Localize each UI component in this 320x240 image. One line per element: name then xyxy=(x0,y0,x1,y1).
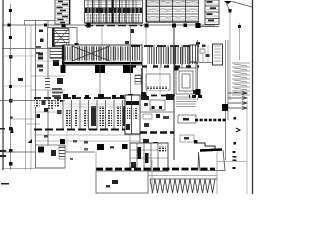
top-left schedule strip (stacked cells) xyxy=(55,0,70,24)
grid line vertical x25 xyxy=(25,25,27,170)
small label A xyxy=(131,29,135,33)
left wing rooms x34-62 y99-115 xyxy=(34,100,62,114)
left dimension tick marks xyxy=(9,9,13,166)
faint dimension lines left xyxy=(2,55,35,57)
horizontal grid line y48.5 left xyxy=(2,48,64,50)
dots right column xyxy=(234,117,237,120)
right wing rooms y45-65 xyxy=(190,44,223,65)
entrance hall rectangle below xyxy=(96,171,148,193)
fixtures lines below band F xyxy=(147,68,161,95)
dark square left of C xyxy=(196,23,201,28)
elevator shaft verticals center xyxy=(100,25,131,97)
plaza line y175 xyxy=(148,175,217,177)
stair hatch rows x176-196 y98-106 xyxy=(176,97,196,107)
right double wall x225-228 xyxy=(225,40,227,160)
zigzag ramp hatch bottom xyxy=(150,179,217,193)
left margin small text marks xyxy=(0,78,23,185)
stair block upper-left xyxy=(39,28,79,49)
dark blob near x197 xyxy=(196,89,201,95)
toilet rooms x125-140 y95-134 xyxy=(125,95,140,134)
dimension marks below core xyxy=(34,135,140,141)
horizontal lines left wing xyxy=(35,60,65,62)
dimension line y100 left xyxy=(0,100,65,102)
toothed dark band right y118-122 xyxy=(195,119,226,121)
wall x197 xyxy=(197,40,199,100)
block A footer dashes xyxy=(85,25,142,27)
lower-left rooms x35-65 y145-168 xyxy=(36,145,66,168)
small marks right wing top xyxy=(196,42,200,45)
bottom-left horizontal line y168 xyxy=(2,168,35,170)
washroom block center y72-95 xyxy=(131,68,175,99)
top dimension baseline y25 xyxy=(2,24,215,26)
louver schedule rows right side xyxy=(232,63,250,95)
small label B xyxy=(125,41,129,44)
line y161 right xyxy=(217,161,247,163)
right inner vertical bottom xyxy=(246,100,248,194)
top block A: hatched grid x84-142 xyxy=(85,0,143,23)
dark blob on right wall xyxy=(222,104,228,111)
pool box bottom-right xyxy=(198,150,225,171)
small box below xyxy=(180,135,194,142)
left annotation lines y119 y124 xyxy=(11,118,35,120)
right mid wall x174 xyxy=(173,26,175,160)
core rooms band x34-133 y97-131 xyxy=(34,98,133,130)
dark blobs below band E xyxy=(61,65,66,73)
bottom vertical lines from building xyxy=(96,134,130,171)
meeting room box right-center xyxy=(178,115,196,123)
mid horizontal line y152 xyxy=(2,151,95,153)
band E: dense hall x63-140 y45-65 xyxy=(62,45,142,65)
fan louver arrows xyxy=(228,92,247,110)
left dimension line xyxy=(10,4,12,170)
small annotation specks left-center xyxy=(73,140,77,143)
vertical line x152 bottom xyxy=(151,160,153,194)
block C bottom line xyxy=(195,26,219,28)
right-bottom small marks xyxy=(233,151,237,169)
building wall x48 xyxy=(47,20,49,168)
core top wall blocks y94-99 xyxy=(63,94,133,99)
top block B: hatched grid x146-199 xyxy=(146,0,200,22)
steps to pool right-bottom xyxy=(195,143,222,149)
band F: dense hall x131-199 y45-68 xyxy=(131,45,199,68)
stair nested rects right-center xyxy=(176,68,196,94)
upper-left room box xyxy=(25,21,61,26)
vertical corridor lines below block A xyxy=(101,26,103,45)
building west wall x35 xyxy=(35,20,37,168)
grid line vertical x31 xyxy=(30,25,32,170)
vertical lines below block B xyxy=(146,26,174,45)
left border frame line xyxy=(2,0,4,170)
leader vertical line x230 xyxy=(229,12,231,100)
leader vertical line x239 xyxy=(239,23,241,60)
north arrow leader top-right xyxy=(224,1,252,13)
lower cluster x130-168 y143-172 xyxy=(130,143,168,171)
top-right stacked cells C xyxy=(205,0,219,25)
baseline tick squares xyxy=(8,24,201,29)
entrance canopy dark band y167-171 xyxy=(96,168,215,171)
center small rooms x140-174 y97-135 xyxy=(140,94,174,150)
left service rooms x35-65 xyxy=(36,46,63,97)
right border frame line xyxy=(252,0,254,194)
